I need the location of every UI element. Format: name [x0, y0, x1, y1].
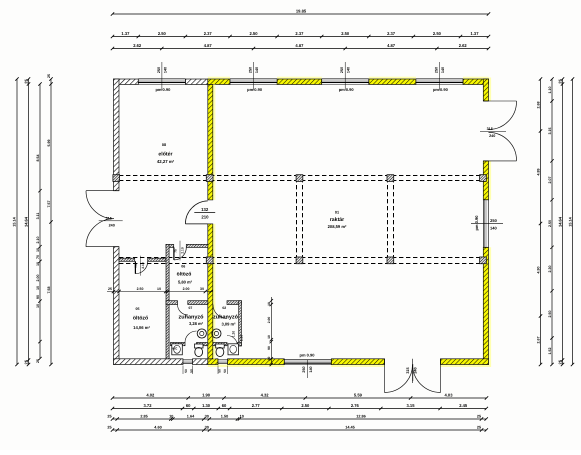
- svg-text:19.85: 19.85: [296, 8, 307, 13]
- svg-text:140: 140: [441, 67, 445, 73]
- window top 3 label: [339, 62, 355, 92]
- svg-text:1.37: 1.37: [471, 31, 480, 36]
- wall bottom yellow 2: [228, 359, 285, 365]
- svg-text:25: 25: [107, 426, 111, 430]
- svg-text:01: 01: [335, 211, 339, 215]
- svg-text:250: 250: [157, 67, 161, 73]
- door 132/210 label: [194, 207, 215, 220]
- svg-text:1.64: 1.64: [187, 415, 195, 419]
- window bottom label: [300, 352, 316, 378]
- svg-text:60: 60: [186, 403, 191, 408]
- svg-text:2.10: 2.10: [240, 335, 244, 341]
- svg-text:5.99: 5.99: [47, 140, 51, 147]
- svg-text:pm 0.90: pm 0.90: [339, 87, 355, 92]
- svg-text:2.00: 2.00: [183, 287, 190, 291]
- svg-text:2.62: 2.62: [459, 43, 468, 48]
- dim chain right inner: [557, 77, 564, 366]
- fringe bottom wall c: [441, 365, 489, 368]
- svg-text:210: 210: [201, 214, 209, 219]
- wall bottom yellow 1: [208, 359, 218, 365]
- door left double 315/240: [86, 191, 119, 247]
- wall bottom grey left: [114, 359, 184, 365]
- window top 2 250/140: [230, 79, 277, 85]
- window right label: [471, 215, 503, 231]
- svg-text:pm 0.90: pm 0.90: [300, 352, 316, 357]
- svg-text:4.87: 4.87: [387, 43, 396, 48]
- svg-text:15.14: 15.14: [568, 216, 572, 226]
- column B row1: [387, 175, 394, 182]
- room 08 elotér labels: [157, 143, 175, 164]
- svg-text:1.10: 1.10: [548, 87, 552, 94]
- svg-text:2.50: 2.50: [548, 220, 552, 227]
- wall right yellow top: [483, 79, 488, 101]
- svg-text:5.59: 5.59: [354, 393, 363, 398]
- column right wall row1: [480, 175, 487, 182]
- fringe top seg3: [277, 77, 322, 79]
- svg-text:10: 10: [169, 415, 173, 419]
- svg-text:30: 30: [200, 287, 204, 291]
- fringe right wall bottom: [489, 247, 492, 367]
- svg-text:05: 05: [136, 307, 140, 311]
- door 132/210 in V1: [185, 201, 207, 224]
- svg-text:70: 70: [36, 255, 40, 259]
- wall right yellow bottom: [483, 247, 488, 364]
- sanitary right wall: [239, 301, 242, 346]
- door 75/210 room 06 label: [173, 241, 184, 261]
- svg-text:4.90: 4.90: [536, 267, 540, 274]
- svg-text:raktár: raktár: [330, 217, 344, 223]
- svg-text:42,27 m²: 42,27 m²: [157, 159, 175, 164]
- room 01 raktár labels: [328, 211, 347, 229]
- dim chain top axes: [111, 43, 490, 50]
- svg-text:1.20: 1.20: [232, 331, 236, 337]
- svg-text:208,59 m²: 208,59 m²: [328, 224, 347, 229]
- door left label 315/240: [99, 217, 123, 228]
- window top 3 250/140: [322, 79, 369, 85]
- svg-text:előtér: előtér: [158, 151, 172, 157]
- svg-text:2.62: 2.62: [133, 43, 142, 48]
- svg-text:2.67: 2.67: [536, 337, 540, 344]
- svg-text:öltöző: öltöző: [177, 272, 192, 278]
- door 75/210 in wall A: [135, 261, 147, 273]
- dashed truss line V3b: [393, 178, 395, 261]
- svg-text:1.30: 1.30: [202, 403, 211, 408]
- wall top segment yellow 5: [463, 79, 489, 85]
- svg-text:2.50: 2.50: [137, 287, 144, 291]
- svg-text:10: 10: [267, 302, 271, 306]
- svg-text:WC: WC: [172, 347, 178, 351]
- svg-text:2.50: 2.50: [250, 31, 259, 36]
- svg-text:10: 10: [267, 335, 271, 339]
- svg-text:140: 140: [309, 366, 313, 372]
- svg-text:75: 75: [173, 249, 177, 253]
- wall right yellow mid: [483, 161, 488, 200]
- fringe right wall mid: [489, 161, 492, 200]
- svg-text:pm 0.90: pm 0.90: [247, 87, 263, 92]
- door wc right: [227, 336, 238, 347]
- svg-text:25: 25: [557, 359, 562, 364]
- shower head left: [197, 329, 206, 338]
- column V1 row2: [206, 257, 213, 264]
- svg-text:zuhanyzó: zuhanyzó: [213, 313, 239, 320]
- svg-text:2.50: 2.50: [158, 31, 167, 36]
- svg-text:25: 25: [477, 426, 481, 430]
- dim chain bottom openings: [111, 403, 488, 410]
- svg-text:2.37: 2.37: [204, 31, 213, 36]
- svg-text:140: 140: [490, 225, 497, 230]
- svg-text:30: 30: [267, 357, 271, 361]
- window bottom small 50: [218, 359, 228, 365]
- svg-text:250: 250: [302, 366, 306, 372]
- dim labels sanitary right: [232, 331, 244, 341]
- svg-text:06: 06: [181, 265, 185, 269]
- door right double 315/240: [483, 101, 516, 161]
- wc labels: [172, 347, 178, 351]
- wall top segment yellow 3: [277, 79, 322, 85]
- svg-text:14.64: 14.64: [23, 216, 28, 227]
- svg-text:132: 132: [201, 207, 209, 212]
- small window dim labels 50: [183, 366, 228, 375]
- dim line left total 15.14: [13, 77, 19, 366]
- svg-text:pm 0.90: pm 0.90: [433, 87, 449, 92]
- window top 4 label: [433, 62, 449, 92]
- svg-text:50: 50: [184, 369, 188, 373]
- wall bottom grey 2: [193, 359, 208, 365]
- svg-text:10: 10: [36, 286, 40, 290]
- svg-text:4.89: 4.89: [536, 169, 540, 176]
- dim chain left inner: [23, 77, 30, 366]
- svg-text:50: 50: [223, 369, 227, 373]
- wall top segment grey 2: [185, 79, 207, 85]
- svg-text:4.02: 4.02: [146, 393, 155, 398]
- dim chain rooms 05/06: [107, 287, 213, 293]
- svg-text:4.32: 4.32: [261, 393, 270, 398]
- window top 4 250/140: [416, 79, 463, 85]
- window right 250/140: [483, 200, 488, 248]
- window top 1 label: [155, 62, 171, 92]
- svg-text:10: 10: [36, 262, 40, 266]
- svg-text:90: 90: [267, 346, 271, 350]
- svg-text:3.15: 3.15: [407, 403, 416, 408]
- svg-text:90: 90: [36, 295, 40, 299]
- svg-text:10: 10: [36, 304, 40, 308]
- svg-text:3.72: 3.72: [144, 403, 153, 408]
- room 02 zuhanyzó labels: [213, 306, 239, 326]
- column A row1: [296, 175, 303, 182]
- svg-text:50: 50: [218, 369, 222, 373]
- svg-text:3,28 m²: 3,28 m²: [189, 321, 204, 326]
- svg-text:240: 240: [109, 223, 115, 227]
- svg-text:3,09 m²: 3,09 m²: [221, 322, 236, 327]
- fringe right wall top: [489, 78, 492, 102]
- svg-text:zuhanyzó: zuhanyzó: [178, 313, 204, 320]
- svg-text:8.54: 8.54: [36, 155, 40, 162]
- svg-text:2.50: 2.50: [433, 31, 442, 36]
- svg-text:250: 250: [249, 67, 253, 73]
- wall top segment yellow 4: [369, 79, 416, 85]
- svg-text:10: 10: [36, 248, 40, 252]
- svg-text:10: 10: [240, 415, 244, 419]
- toilet left: [195, 344, 204, 357]
- svg-text:30: 30: [205, 415, 209, 419]
- svg-text:25: 25: [23, 359, 28, 364]
- svg-text:2.00: 2.00: [36, 275, 40, 282]
- svg-text:240: 240: [414, 367, 418, 373]
- svg-text:2.37: 2.37: [295, 31, 304, 36]
- svg-text:öltöző: öltöző: [133, 316, 148, 322]
- svg-text:2.00: 2.00: [267, 317, 271, 324]
- door 75/210 label: [134, 256, 145, 276]
- svg-text:14,06 m²: 14,06 m²: [133, 325, 150, 330]
- room 06 öltöző labels: [177, 265, 193, 285]
- dim chain left rooms: [47, 74, 53, 366]
- svg-text:2.50: 2.50: [301, 403, 310, 408]
- wall left lower grey: [114, 247, 120, 365]
- window top 1 250/140: [138, 79, 185, 85]
- dim chain left detail: [36, 82, 42, 363]
- svg-text:2.30: 2.30: [548, 266, 552, 273]
- wall V1 pale fringe lower: [213, 224, 216, 359]
- wall left upper grey: [114, 79, 120, 191]
- washbasin left: [172, 344, 183, 355]
- svg-text:3.15: 3.15: [548, 128, 552, 135]
- svg-text:pm 0.90: pm 0.90: [474, 215, 479, 231]
- svg-text:2.45: 2.45: [459, 403, 468, 408]
- wall bottom yellow 4: [441, 359, 489, 365]
- svg-text:140: 140: [255, 67, 259, 73]
- svg-text:25: 25: [47, 74, 51, 78]
- room 07 zuhanyzó labels: [178, 306, 204, 326]
- svg-text:14.64: 14.64: [557, 216, 562, 227]
- svg-text:25: 25: [477, 415, 481, 419]
- partition showers/wc left: [171, 343, 186, 346]
- shower head right: [212, 329, 221, 338]
- svg-text:02: 02: [222, 306, 226, 310]
- svg-text:50: 50: [189, 369, 193, 373]
- svg-text:2.10: 2.10: [36, 237, 40, 244]
- svg-text:140: 140: [163, 67, 167, 73]
- svg-text:2.37: 2.37: [387, 31, 396, 36]
- dashed roof line H1a: [119, 175, 483, 177]
- dashed truss line V3a: [387, 178, 389, 261]
- svg-text:1.37: 1.37: [121, 31, 130, 36]
- room 05 öltöző labels: [133, 307, 151, 330]
- toilet right: [216, 344, 225, 357]
- column V1 row1: [206, 175, 213, 182]
- dim chain right glass: [536, 77, 542, 366]
- wall A (05/corridor): [119, 258, 135, 261]
- svg-text:2.68: 2.68: [536, 102, 540, 109]
- room 06 top wall: [166, 244, 174, 247]
- dim chain top windows: [111, 31, 490, 38]
- window bottom 250/140: [284, 359, 331, 365]
- svg-text:315: 315: [406, 367, 410, 373]
- wall bottom yellow 3: [331, 359, 384, 365]
- svg-text:60: 60: [222, 403, 227, 408]
- door bottom double 315/240: [385, 359, 441, 393]
- dashed truss line V2a: [296, 178, 298, 261]
- wall V1 pale fringe upper: [213, 85, 216, 200]
- svg-text:7.58: 7.58: [47, 287, 51, 294]
- dim chain sanitary heights: [267, 297, 273, 366]
- svg-text:4.60: 4.60: [154, 426, 161, 430]
- svg-text:4.03: 4.03: [445, 393, 454, 398]
- dim chain right openings: [548, 77, 554, 366]
- svg-text:1.90: 1.90: [202, 393, 211, 398]
- washbasin right: [228, 344, 239, 355]
- door right label 315/240: [480, 127, 506, 138]
- svg-text:75: 75: [134, 264, 138, 268]
- svg-text:2.50: 2.50: [341, 31, 350, 36]
- svg-text:1.50: 1.50: [221, 415, 228, 419]
- dashed roof line H2b: [119, 263, 483, 265]
- svg-text:250: 250: [340, 67, 344, 73]
- svg-text:25: 25: [107, 415, 111, 419]
- column right wall row2: [480, 257, 487, 264]
- svg-text:25: 25: [557, 79, 562, 84]
- svg-text:7.57: 7.57: [47, 201, 51, 208]
- svg-text:240: 240: [489, 134, 495, 138]
- svg-text:15.14: 15.14: [13, 216, 17, 226]
- svg-text:10: 10: [157, 287, 161, 291]
- dashed truss line V2b: [302, 178, 304, 261]
- shower block top wall: [166, 301, 178, 305]
- svg-text:07: 07: [189, 306, 193, 310]
- dim line total width 19.85: [113, 13, 489, 15]
- svg-text:12.86: 12.86: [356, 415, 366, 419]
- door 75/210 room 06: [174, 247, 186, 260]
- svg-text:08: 08: [162, 143, 166, 147]
- svg-text:3.11: 3.11: [36, 213, 40, 220]
- dashed roof line H1b: [119, 180, 483, 182]
- wall top segment grey left: [114, 79, 139, 85]
- dim chain bottom rooms: [111, 393, 488, 400]
- room 06 left wall: [166, 244, 169, 358]
- door bottom label 315/240: [406, 364, 418, 381]
- svg-text:5,80 m²: 5,80 m²: [178, 280, 193, 285]
- door right shower: [213, 305, 227, 319]
- fringe top seg2: [208, 77, 230, 79]
- svg-text:2.50: 2.50: [548, 311, 552, 318]
- svg-text:25: 25: [108, 287, 112, 291]
- svg-text:14.45: 14.45: [345, 426, 355, 430]
- svg-text:4.87: 4.87: [204, 43, 213, 48]
- svg-text:4.87: 4.87: [295, 43, 304, 48]
- svg-text:315: 315: [106, 217, 112, 221]
- wall V1 yellow lower: [208, 224, 213, 359]
- wall V1 yellow upper: [208, 85, 213, 200]
- svg-text:1.52: 1.52: [548, 348, 552, 355]
- fringe bottom wall b: [331, 365, 384, 368]
- svg-text:140: 140: [347, 67, 351, 73]
- fringe bottom wall a: [208, 365, 284, 368]
- svg-text:2.85: 2.85: [140, 415, 147, 419]
- svg-text:25: 25: [23, 79, 28, 84]
- dim chain bottom overall: [107, 426, 488, 432]
- wall top segment yellow 2b: [208, 79, 230, 85]
- door wc left: [185, 331, 197, 343]
- svg-text:2.76: 2.76: [351, 403, 360, 408]
- dashed roof line H2a: [119, 257, 483, 259]
- svg-text:2.10: 2.10: [180, 247, 184, 253]
- svg-text:2.77: 2.77: [252, 403, 261, 408]
- partition showers/wc right: [213, 343, 227, 346]
- column B row2: [387, 257, 394, 264]
- svg-text:25: 25: [36, 359, 40, 363]
- svg-text:30: 30: [205, 426, 209, 430]
- svg-text:2.10: 2.10: [141, 262, 145, 268]
- svg-text:2.07: 2.07: [548, 177, 552, 184]
- svg-text:250: 250: [434, 67, 438, 73]
- svg-text:pm 0.90: pm 0.90: [155, 87, 171, 92]
- svg-text:250: 250: [490, 218, 497, 223]
- svg-text:315: 315: [487, 127, 493, 131]
- column A row2: [296, 257, 303, 264]
- column left wall row1: [113, 175, 120, 182]
- dim chain bottom detail: [107, 415, 488, 421]
- fringe top seg5: [463, 77, 489, 79]
- dim line right total 15.14: [568, 77, 574, 366]
- window top 2 label: [247, 62, 263, 92]
- fringe top seg4: [369, 77, 416, 79]
- door left shower: [178, 305, 188, 315]
- window bottom small 50: [183, 359, 193, 365]
